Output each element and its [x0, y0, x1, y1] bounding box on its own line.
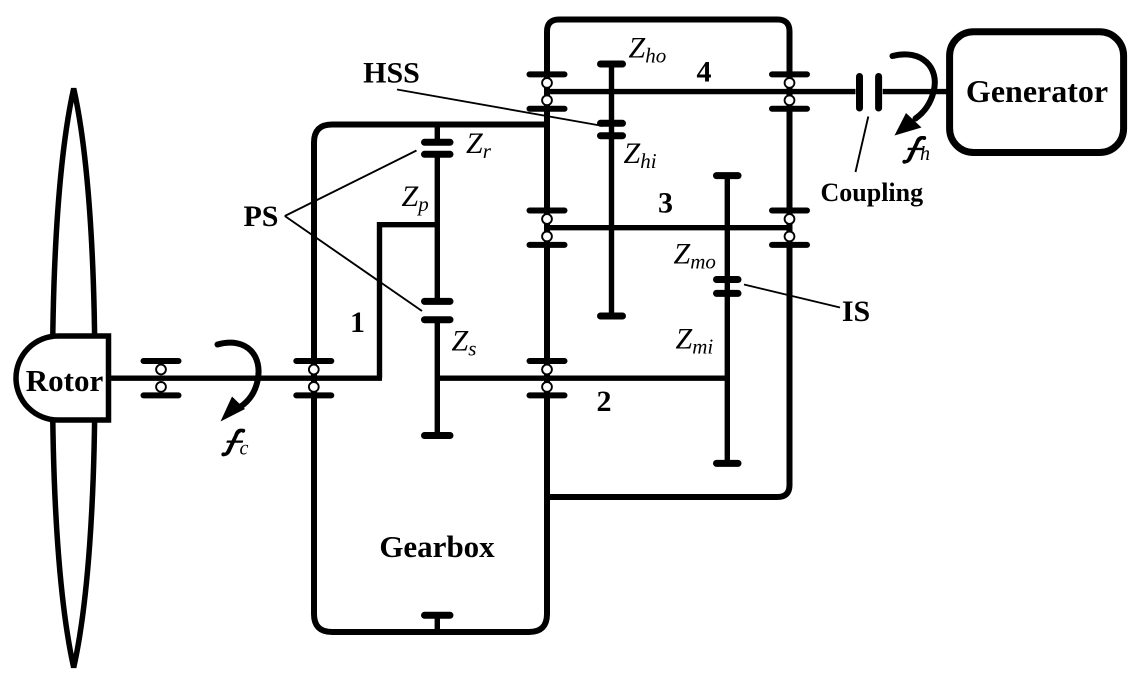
- svg-text:1: 1: [350, 306, 365, 339]
- svg-text:Zhi: Zhi: [624, 137, 657, 173]
- svg-text:h: h: [920, 143, 930, 165]
- svg-text:3: 3: [658, 187, 673, 220]
- svg-text:Zp: Zp: [402, 180, 429, 216]
- svg-text:PS: PS: [243, 200, 278, 233]
- svg-text:Zr: Zr: [466, 127, 492, 163]
- svg-text:IS: IS: [842, 295, 870, 328]
- svg-text:Zs: Zs: [452, 325, 477, 361]
- svg-text:Rotor: Rotor: [26, 363, 104, 398]
- svg-text:HSS: HSS: [363, 57, 420, 90]
- svg-text:4: 4: [697, 56, 712, 89]
- svg-text:c: c: [240, 438, 249, 460]
- svg-text:Zho: Zho: [629, 32, 667, 68]
- svg-text:2: 2: [597, 385, 612, 418]
- svg-text:Zmi: Zmi: [676, 323, 714, 359]
- svg-text:Generator: Generator: [966, 73, 1108, 109]
- svg-text:Zmo: Zmo: [674, 238, 716, 274]
- svg-text:Gearbox: Gearbox: [379, 529, 495, 564]
- svg-text:Coupling: Coupling: [821, 178, 924, 207]
